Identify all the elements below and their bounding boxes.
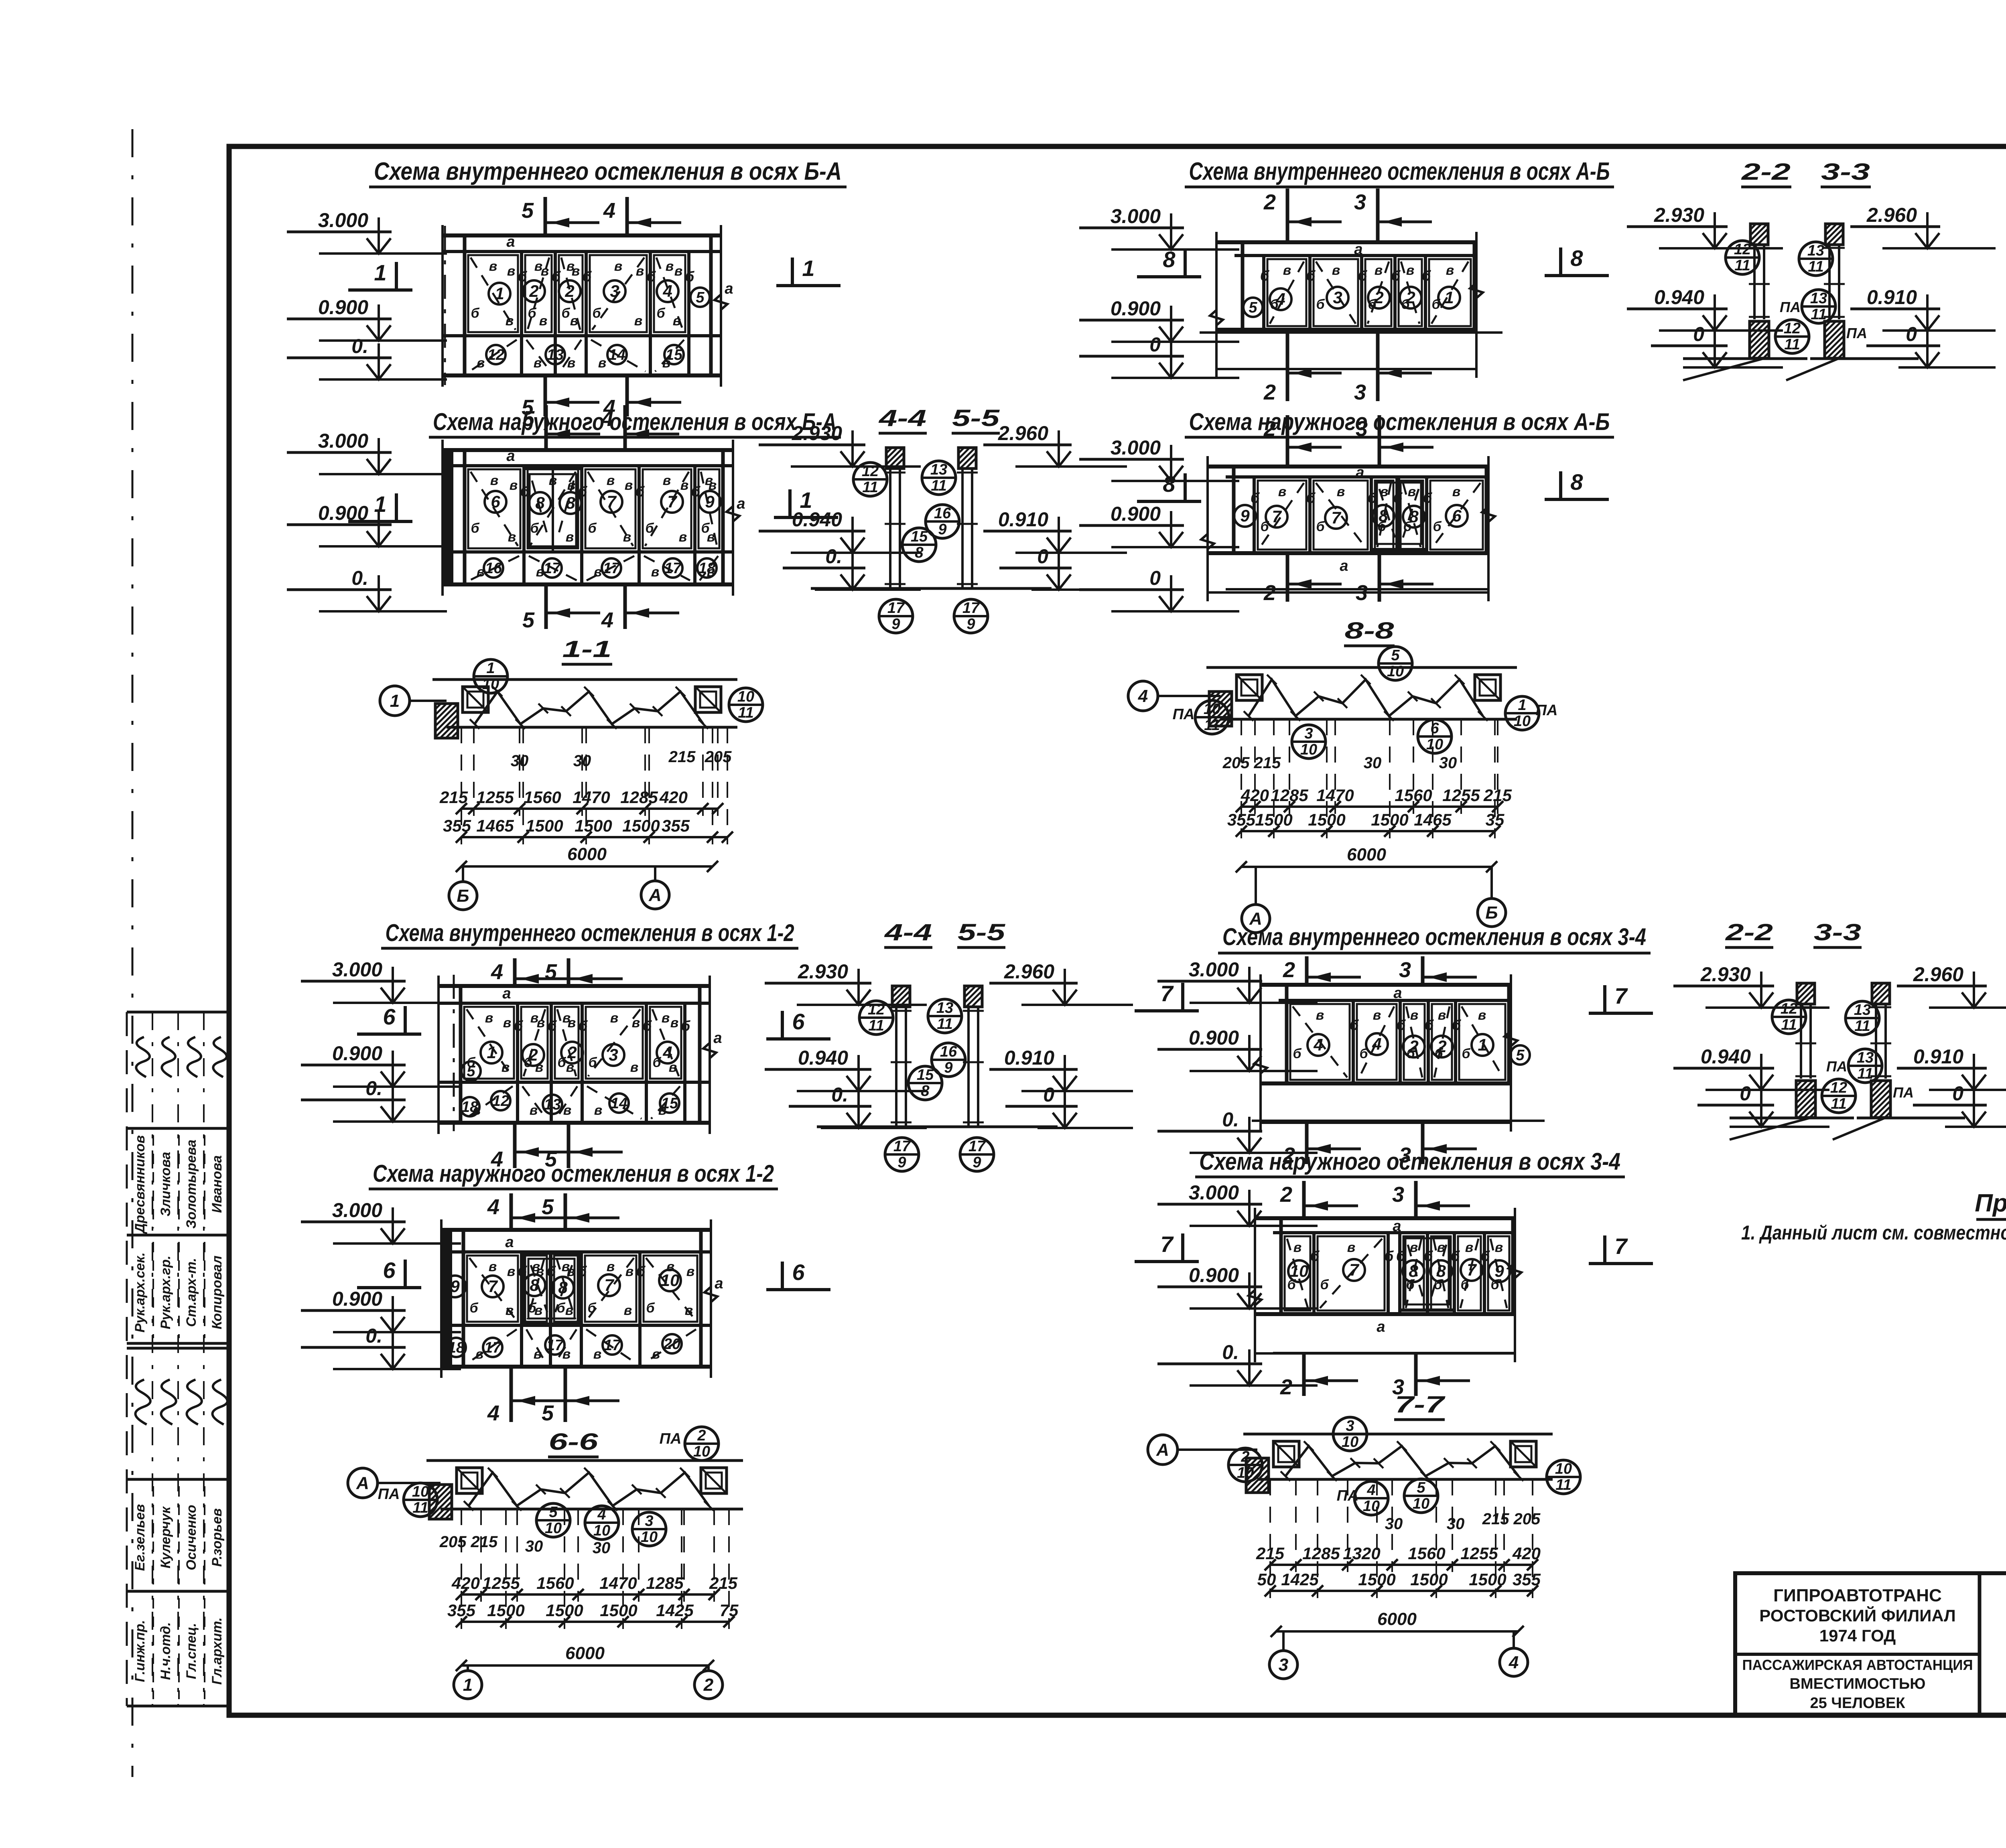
svg-text:а: а — [1377, 1319, 1385, 1335]
svg-text:6000: 6000 — [567, 844, 607, 864]
svg-text:б: б — [556, 1300, 565, 1316]
svg-text:10: 10 — [593, 1522, 610, 1539]
svg-text:Кулерчук: Кулерчук — [158, 1506, 173, 1568]
svg-text:8-8: 8-8 — [1345, 618, 1395, 644]
svg-text:2: 2 — [1437, 1037, 1446, 1056]
svg-text:7: 7 — [1160, 981, 1174, 1006]
svg-text:12: 12 — [1830, 1079, 1847, 1096]
svg-text:в: в — [485, 1010, 493, 1026]
svg-text:б: б — [528, 306, 536, 321]
svg-text:1470: 1470 — [1316, 786, 1354, 805]
svg-text:5: 5 — [542, 1195, 554, 1219]
svg-text:0: 0 — [1906, 323, 1917, 345]
svg-text:11: 11 — [862, 479, 878, 496]
svg-text:0.: 0. — [1222, 1108, 1239, 1131]
svg-text:30: 30 — [1439, 754, 1457, 772]
svg-text:8: 8 — [566, 493, 575, 512]
svg-text:ПА: ПА — [1173, 706, 1195, 723]
paper left edge line — [132, 129, 134, 1777]
svg-text:б: б — [681, 1018, 691, 1034]
svg-text:0.940: 0.940 — [1654, 286, 1704, 308]
svg-text:А: А — [648, 885, 662, 905]
svg-text:в: в — [566, 529, 574, 545]
svg-text:5-5: 5-5 — [952, 405, 1000, 431]
svg-text:б: б — [1316, 297, 1325, 312]
svg-text:в: в — [530, 1103, 538, 1118]
svg-text:1500: 1500 — [1308, 810, 1345, 829]
svg-text:Гл.архит.: Гл.архит. — [209, 1617, 225, 1685]
svg-text:в: в — [534, 1303, 543, 1318]
svg-text:2.930: 2.930 — [798, 960, 848, 983]
elevation: external glazing axes А-Б — [1208, 465, 1488, 469]
svg-text:14: 14 — [611, 1095, 627, 1112]
svg-text:1500: 1500 — [1410, 1570, 1448, 1589]
svg-text:а: а — [502, 985, 511, 1002]
svg-text:4: 4 — [603, 199, 615, 223]
svg-text:13: 13 — [1810, 290, 1827, 307]
svg-text:1: 1 — [374, 260, 386, 285]
svg-text:в: в — [1375, 263, 1383, 278]
svg-text:Примечания: Примечания — [1975, 1189, 2006, 1217]
svg-text:9: 9 — [450, 1277, 460, 1296]
svg-text:в: в — [607, 1259, 615, 1274]
svg-text:355: 355 — [443, 816, 471, 835]
svg-text:3-3: 3-3 — [1814, 919, 1861, 945]
section cut ticks — [544, 197, 547, 235]
svg-text:7: 7 — [667, 492, 677, 511]
svg-text:в: в — [630, 1060, 639, 1075]
svg-text:11: 11 — [1857, 1065, 1873, 1082]
svg-text:5: 5 — [1391, 647, 1400, 664]
svg-text:420: 420 — [1241, 786, 1269, 805]
svg-text:в: в — [507, 1264, 516, 1279]
svg-text:1285: 1285 — [620, 788, 658, 807]
svg-text:4-4: 4-4 — [879, 405, 926, 431]
svg-text:25 ЧЕЛОВЕК: 25 ЧЕЛОВЕК — [1810, 1695, 1905, 1712]
svg-text:в: в — [539, 313, 548, 329]
svg-text:3: 3 — [1399, 958, 1411, 982]
svg-text:10: 10 — [412, 1483, 429, 1500]
svg-text:в: в — [1406, 263, 1415, 278]
svg-text:9: 9 — [944, 1059, 952, 1076]
svg-text:10: 10 — [1204, 701, 1220, 718]
svg-text:5: 5 — [522, 608, 535, 632]
svg-text:Осиченко: Осиченко — [184, 1505, 199, 1570]
svg-text:15: 15 — [911, 528, 928, 545]
svg-text:3.000: 3.000 — [332, 958, 382, 981]
svg-text:в: в — [1283, 263, 1291, 278]
svg-text:0.900: 0.900 — [1189, 1026, 1239, 1049]
svg-text:4: 4 — [662, 1043, 672, 1062]
svg-text:0: 0 — [1149, 567, 1161, 589]
svg-text:б: б — [588, 1055, 597, 1070]
svg-text:5: 5 — [522, 407, 535, 431]
svg-text:35: 35 — [1486, 810, 1504, 829]
svg-text:1500: 1500 — [546, 1601, 583, 1620]
svg-text:в: в — [534, 1347, 542, 1362]
svg-text:в: в — [490, 473, 499, 488]
elevation: internal glazing axes 1-2 — [439, 984, 710, 988]
svg-text:Б: Б — [1485, 903, 1498, 923]
svg-text:4: 4 — [601, 608, 613, 632]
svg-text:4: 4 — [1372, 1035, 1381, 1053]
svg-text:11: 11 — [1784, 336, 1800, 353]
svg-text:3: 3 — [1354, 380, 1366, 404]
svg-text:а: а — [715, 1275, 723, 1292]
svg-text:4: 4 — [487, 1195, 499, 1219]
svg-text:0.: 0. — [351, 567, 368, 589]
svg-text:ВМЕСТИМОСТЬЮ: ВМЕСТИМОСТЬЮ — [1790, 1676, 1926, 1692]
svg-text:13: 13 — [930, 461, 947, 478]
svg-text:6: 6 — [1430, 720, 1439, 737]
svg-text:0: 0 — [1952, 1082, 1963, 1105]
svg-text:14: 14 — [609, 347, 625, 363]
svg-text:4: 4 — [1275, 290, 1285, 308]
svg-text:б: б — [587, 1300, 596, 1316]
svg-text:10: 10 — [1342, 1434, 1358, 1450]
svg-text:11: 11 — [1781, 1016, 1797, 1033]
svg-text:5: 5 — [542, 1401, 554, 1425]
svg-text:а: а — [725, 280, 733, 297]
svg-text:2: 2 — [528, 1045, 538, 1064]
svg-text:в: в — [1410, 1008, 1419, 1023]
svg-text:б: б — [471, 521, 479, 536]
svg-text:2-2: 2-2 — [1725, 919, 1773, 945]
svg-text:10: 10 — [482, 676, 499, 693]
svg-text:8: 8 — [558, 1278, 568, 1297]
svg-text:ПА: ПА — [1893, 1084, 1914, 1101]
section detail 4-4/5-5 (top-left) — [886, 448, 904, 469]
svg-text:0.900: 0.900 — [332, 1042, 382, 1065]
svg-text:2.960: 2.960 — [1004, 960, 1054, 983]
svg-text:4: 4 — [1366, 1482, 1375, 1499]
svg-text:11: 11 — [738, 704, 753, 721]
svg-text:Б: Б — [457, 886, 469, 906]
elevation: internal glazing axes 3-4 — [1261, 983, 1511, 987]
svg-text:4: 4 — [597, 1506, 606, 1523]
svg-text:ПА: ПА — [1780, 299, 1801, 315]
svg-text:2.960: 2.960 — [998, 422, 1048, 444]
svg-text:в: в — [674, 264, 683, 279]
svg-text:1560: 1560 — [1408, 1544, 1445, 1563]
svg-text:3.000: 3.000 — [1111, 436, 1161, 459]
svg-text:2: 2 — [1263, 581, 1276, 605]
svg-text:6-6: 6-6 — [549, 1429, 599, 1455]
svg-text:10: 10 — [641, 1529, 658, 1546]
svg-text:1: 1 — [486, 660, 495, 677]
svg-text:в: в — [1446, 263, 1454, 278]
svg-text:1255: 1255 — [482, 1574, 520, 1592]
svg-text:1500: 1500 — [600, 1601, 637, 1620]
svg-text:11: 11 — [1854, 1018, 1870, 1035]
svg-text:3: 3 — [609, 1045, 618, 1064]
svg-text:15: 15 — [917, 1067, 934, 1083]
svg-text:0: 0 — [1043, 1083, 1054, 1106]
svg-text:2: 2 — [1374, 288, 1383, 307]
svg-text:1470: 1470 — [573, 788, 610, 807]
svg-text:в: в — [662, 1010, 670, 1026]
svg-text:Иванова: Иванова — [209, 1155, 225, 1213]
svg-text:Н.ч.отд.: Н.ч.отд. — [158, 1622, 173, 1680]
svg-text:8: 8 — [530, 1276, 539, 1294]
svg-text:8: 8 — [1379, 506, 1388, 525]
svg-text:в: в — [489, 259, 497, 274]
svg-text:0: 0 — [1693, 323, 1704, 345]
svg-text:1255: 1255 — [1442, 786, 1480, 805]
svg-text:9: 9 — [938, 521, 946, 538]
svg-text:в: в — [1332, 263, 1340, 278]
svg-text:8: 8 — [535, 493, 545, 512]
elevation: external glazing axes Б-А — [443, 448, 733, 452]
svg-text:5: 5 — [549, 1504, 558, 1521]
svg-text:2: 2 — [529, 282, 538, 300]
svg-text:17: 17 — [603, 560, 621, 577]
svg-text:30: 30 — [1447, 1515, 1465, 1533]
svg-text:3: 3 — [1333, 288, 1342, 307]
svg-text:9: 9 — [973, 1154, 981, 1171]
svg-text:8: 8 — [1163, 471, 1176, 497]
svg-text:в: в — [673, 313, 681, 329]
svg-text:4-4: 4-4 — [884, 919, 932, 945]
svg-text:в: в — [508, 529, 516, 545]
svg-text:б: б — [685, 268, 695, 285]
svg-text:в: в — [489, 1259, 497, 1274]
svg-text:50: 50 — [1257, 1570, 1276, 1589]
svg-text:Копировал: Копировал — [209, 1256, 225, 1329]
svg-text:в: в — [503, 1015, 512, 1030]
svg-text:ПА: ПА — [378, 1486, 400, 1503]
svg-text:0.: 0. — [831, 1083, 848, 1106]
svg-text:8: 8 — [1163, 247, 1176, 272]
svg-text:в: в — [625, 1264, 634, 1279]
svg-text:в: в — [594, 1103, 603, 1118]
svg-text:12: 12 — [1784, 320, 1801, 337]
svg-text:в: в — [1452, 484, 1461, 499]
svg-text:Ст.арх-т.: Ст.арх-т. — [184, 1258, 199, 1327]
svg-text:1255: 1255 — [1460, 1544, 1498, 1563]
svg-text:17: 17 — [546, 1337, 564, 1354]
svg-text:2: 2 — [1409, 1037, 1418, 1056]
svg-text:0.: 0. — [1222, 1341, 1239, 1363]
svg-text:б: б — [1462, 1046, 1470, 1061]
svg-text:в: в — [679, 529, 687, 545]
svg-text:3: 3 — [1356, 417, 1368, 441]
svg-text:2: 2 — [703, 1675, 714, 1695]
svg-text:2-2: 2-2 — [1741, 159, 1791, 185]
elevation: internal glazing axes Б-А — [443, 233, 721, 237]
svg-text:8: 8 — [1570, 245, 1583, 271]
svg-text:6: 6 — [383, 1258, 396, 1283]
svg-text:1: 1 — [374, 491, 386, 517]
svg-text:1: 1 — [463, 1675, 473, 1695]
svg-text:1-1: 1-1 — [562, 636, 612, 662]
border frame — [229, 146, 2006, 1715]
svg-text:2: 2 — [1405, 288, 1415, 307]
svg-text:1500: 1500 — [487, 1601, 524, 1620]
svg-text:0.: 0. — [351, 335, 368, 357]
svg-text:7: 7 — [1349, 1260, 1359, 1279]
svg-text:16: 16 — [485, 560, 502, 577]
svg-text:215: 215 — [1483, 786, 1512, 805]
svg-text:6: 6 — [491, 492, 500, 511]
svg-text:2: 2 — [697, 1427, 706, 1444]
section detail 4-4/5-5 (lower-left) — [892, 986, 910, 1007]
svg-text:Схема внутреннего остекления в: Схема внутреннего остекления в осях А-Б — [1189, 158, 1610, 185]
svg-text:18: 18 — [448, 1339, 465, 1356]
svg-text:5-5: 5-5 — [958, 919, 1005, 945]
svg-text:1974 ГОД: 1974 ГОД — [1819, 1626, 1896, 1645]
svg-text:б: б — [1320, 1277, 1329, 1292]
svg-text:в: в — [1408, 484, 1416, 499]
svg-text:ПА: ПА — [1846, 325, 1867, 341]
svg-text:7: 7 — [1614, 983, 1628, 1008]
svg-text:ПА: ПА — [1826, 1058, 1847, 1075]
svg-text:2: 2 — [564, 282, 574, 300]
svg-text:ПАССАЖИРСКАЯ АВТОСТАНЦИЯ: ПАССАЖИРСКАЯ АВТОСТАНЦИЯ — [1742, 1657, 1973, 1673]
svg-text:2.930: 2.930 — [1700, 963, 1751, 986]
svg-text:1255: 1255 — [476, 788, 514, 807]
svg-text:17: 17 — [604, 1337, 621, 1354]
svg-text:17: 17 — [893, 1138, 911, 1155]
svg-text:0: 0 — [1149, 333, 1161, 356]
svg-text:в: в — [1278, 484, 1287, 499]
svg-text:0.910: 0.910 — [1913, 1045, 1963, 1068]
svg-text:10: 10 — [1300, 741, 1317, 758]
svg-text:0.: 0. — [825, 545, 842, 568]
svg-text:30: 30 — [525, 1538, 543, 1555]
svg-text:б: б — [656, 306, 665, 321]
svg-text:Золотырева: Золотырева — [184, 1140, 199, 1229]
svg-text:в: в — [623, 529, 631, 545]
svg-text:в: в — [707, 529, 715, 545]
svg-text:в: в — [666, 259, 674, 274]
svg-text:215: 215 — [668, 748, 696, 766]
svg-text:5: 5 — [467, 1063, 475, 1080]
svg-text:30: 30 — [593, 1539, 611, 1557]
svg-text:9: 9 — [891, 616, 900, 633]
svg-text:10: 10 — [1387, 663, 1404, 680]
section detail 2-2/3-3 (lower-right) — [1797, 983, 1815, 1004]
svg-text:5: 5 — [696, 289, 705, 306]
svg-text:2: 2 — [1283, 1143, 1295, 1167]
svg-text:10: 10 — [1426, 736, 1443, 753]
svg-text:13: 13 — [544, 1096, 561, 1113]
svg-text:б: б — [561, 306, 570, 321]
svg-text:в: в — [1438, 1008, 1446, 1023]
svg-text:11: 11 — [1555, 1477, 1571, 1493]
svg-text:в: в — [537, 1015, 545, 1030]
svg-text:4: 4 — [601, 407, 613, 431]
svg-text:2.960: 2.960 — [1866, 204, 1917, 226]
svg-text:10: 10 — [693, 1443, 710, 1460]
svg-text:0.900: 0.900 — [318, 296, 368, 318]
svg-text:6: 6 — [383, 1004, 396, 1029]
svg-text:4: 4 — [491, 960, 503, 984]
svg-text:215: 215 — [709, 1574, 738, 1592]
svg-text:б: б — [469, 1300, 478, 1316]
svg-text:в: в — [506, 313, 514, 329]
svg-text:в: в — [570, 313, 579, 329]
svg-text:Схема внутреннего остекления в: Схема внутреннего остекления в осях 1-2 — [386, 919, 794, 946]
svg-text:9: 9 — [705, 492, 715, 511]
svg-text:13: 13 — [1854, 1002, 1871, 1018]
svg-text:18: 18 — [698, 560, 716, 577]
svg-text:11: 11 — [1204, 717, 1220, 734]
svg-text:1500: 1500 — [526, 816, 563, 835]
svg-text:4: 4 — [662, 282, 672, 300]
svg-text:6000: 6000 — [1377, 1609, 1417, 1629]
svg-text:3.000: 3.000 — [1189, 958, 1239, 981]
svg-text:6: 6 — [792, 1009, 805, 1034]
svg-text:3: 3 — [1346, 1418, 1354, 1434]
svg-text:1285: 1285 — [646, 1574, 684, 1592]
svg-text:в: в — [670, 1015, 679, 1030]
svg-text:в: в — [636, 264, 644, 279]
svg-text:Схема наружного остекления в о: Схема наружного остекления в осях А-Б — [1189, 408, 1610, 435]
svg-text:355: 355 — [447, 1601, 476, 1620]
svg-text:2: 2 — [1280, 1375, 1292, 1399]
svg-text:в: в — [567, 355, 576, 371]
svg-text:1: 1 — [487, 1043, 496, 1062]
svg-text:1: 1 — [390, 691, 400, 711]
svg-text:а: а — [1340, 558, 1348, 574]
svg-text:б: б — [1316, 519, 1325, 534]
svg-text:205 215: 205 215 — [1222, 754, 1281, 772]
svg-text:2: 2 — [1283, 958, 1295, 982]
svg-text:10: 10 — [1290, 1262, 1309, 1280]
svg-text:10: 10 — [1413, 1495, 1429, 1512]
svg-text:а: а — [506, 233, 515, 250]
svg-text:11: 11 — [1734, 257, 1750, 274]
svg-text:1285: 1285 — [1302, 1544, 1340, 1563]
svg-text:1: 1 — [495, 284, 504, 303]
svg-text:в: в — [593, 1347, 602, 1362]
svg-text:7: 7 — [1614, 1233, 1628, 1259]
svg-text:8: 8 — [1570, 469, 1583, 495]
svg-text:в: в — [1337, 484, 1345, 499]
svg-text:Р.зорьев: Р.зорьев — [209, 1508, 225, 1567]
svg-text:11: 11 — [1808, 258, 1823, 275]
svg-text:6: 6 — [1452, 506, 1462, 525]
svg-text:17: 17 — [962, 600, 980, 617]
svg-text:4: 4 — [1138, 686, 1148, 706]
svg-text:11: 11 — [1831, 1095, 1846, 1112]
svg-text:3: 3 — [1392, 1375, 1404, 1399]
svg-text:3.000: 3.000 — [332, 1199, 382, 1221]
svg-text:2: 2 — [1241, 1448, 1249, 1465]
svg-text:в: в — [663, 473, 671, 488]
svg-text:Ег.зельев: Ег.зельев — [132, 1504, 148, 1571]
svg-text:0.910: 0.910 — [1004, 1047, 1054, 1069]
svg-text:1425: 1425 — [1281, 1570, 1319, 1589]
svg-text:2.930: 2.930 — [792, 422, 842, 444]
svg-text:а: а — [713, 1030, 722, 1047]
svg-text:в: в — [1465, 1240, 1474, 1255]
svg-text:А: А — [1249, 909, 1262, 929]
svg-text:в: в — [686, 1264, 695, 1279]
svg-text:в: в — [506, 1303, 514, 1318]
svg-text:в: в — [501, 1060, 510, 1075]
svg-text:1425: 1425 — [656, 1601, 694, 1620]
svg-text:10: 10 — [545, 1520, 562, 1537]
svg-text:17: 17 — [968, 1138, 986, 1155]
svg-text:1500: 1500 — [575, 816, 612, 835]
svg-text:2.930: 2.930 — [1654, 204, 1704, 226]
svg-text:РОСТОВСКИЙ ФИЛИАЛ: РОСТОВСКИЙ ФИЛИАЛ — [1759, 1606, 1955, 1625]
svg-text:Дресвянников: Дресвянников — [132, 1135, 148, 1234]
svg-text:0.910: 0.910 — [998, 508, 1048, 531]
svg-text:3: 3 — [1392, 1183, 1404, 1207]
